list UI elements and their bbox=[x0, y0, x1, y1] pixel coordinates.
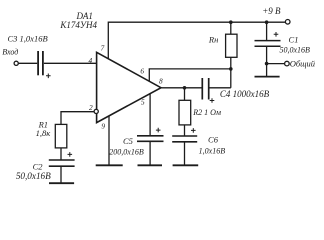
svg-text:50,0х16В: 50,0х16В bbox=[16, 171, 51, 181]
svg-text:Rн: Rн bbox=[208, 34, 218, 44]
svg-text:Общий: Общий bbox=[290, 59, 316, 69]
svg-text:8: 8 bbox=[159, 77, 163, 86]
svg-text:К174УН4: К174УН4 bbox=[59, 20, 97, 30]
svg-text:4: 4 bbox=[88, 56, 92, 65]
svg-text:+9 В: +9 В bbox=[262, 6, 281, 16]
svg-text:200,0х16В: 200,0х16В bbox=[109, 148, 144, 157]
svg-text:50,0х16В: 50,0х16В bbox=[279, 45, 310, 54]
svg-text:6: 6 bbox=[140, 67, 144, 76]
svg-text:C6: C6 bbox=[208, 135, 219, 145]
svg-text:1,0х16В: 1,0х16В bbox=[199, 146, 226, 155]
svg-text:C5: C5 bbox=[123, 136, 133, 146]
svg-text:5: 5 bbox=[141, 98, 145, 107]
svg-text:1,8к: 1,8к bbox=[36, 128, 52, 138]
svg-text:7: 7 bbox=[101, 43, 105, 52]
svg-text:C3 1,0х16В: C3 1,0х16В bbox=[8, 34, 48, 44]
svg-text:C1: C1 bbox=[289, 35, 299, 45]
svg-text:2: 2 bbox=[89, 103, 93, 112]
svg-text:9: 9 bbox=[101, 122, 105, 131]
svg-text:C4 1000х16В: C4 1000х16В bbox=[220, 89, 270, 99]
svg-text:Вход: Вход bbox=[2, 48, 18, 57]
svg-text:R2 1 Ом: R2 1 Ом bbox=[192, 108, 221, 117]
